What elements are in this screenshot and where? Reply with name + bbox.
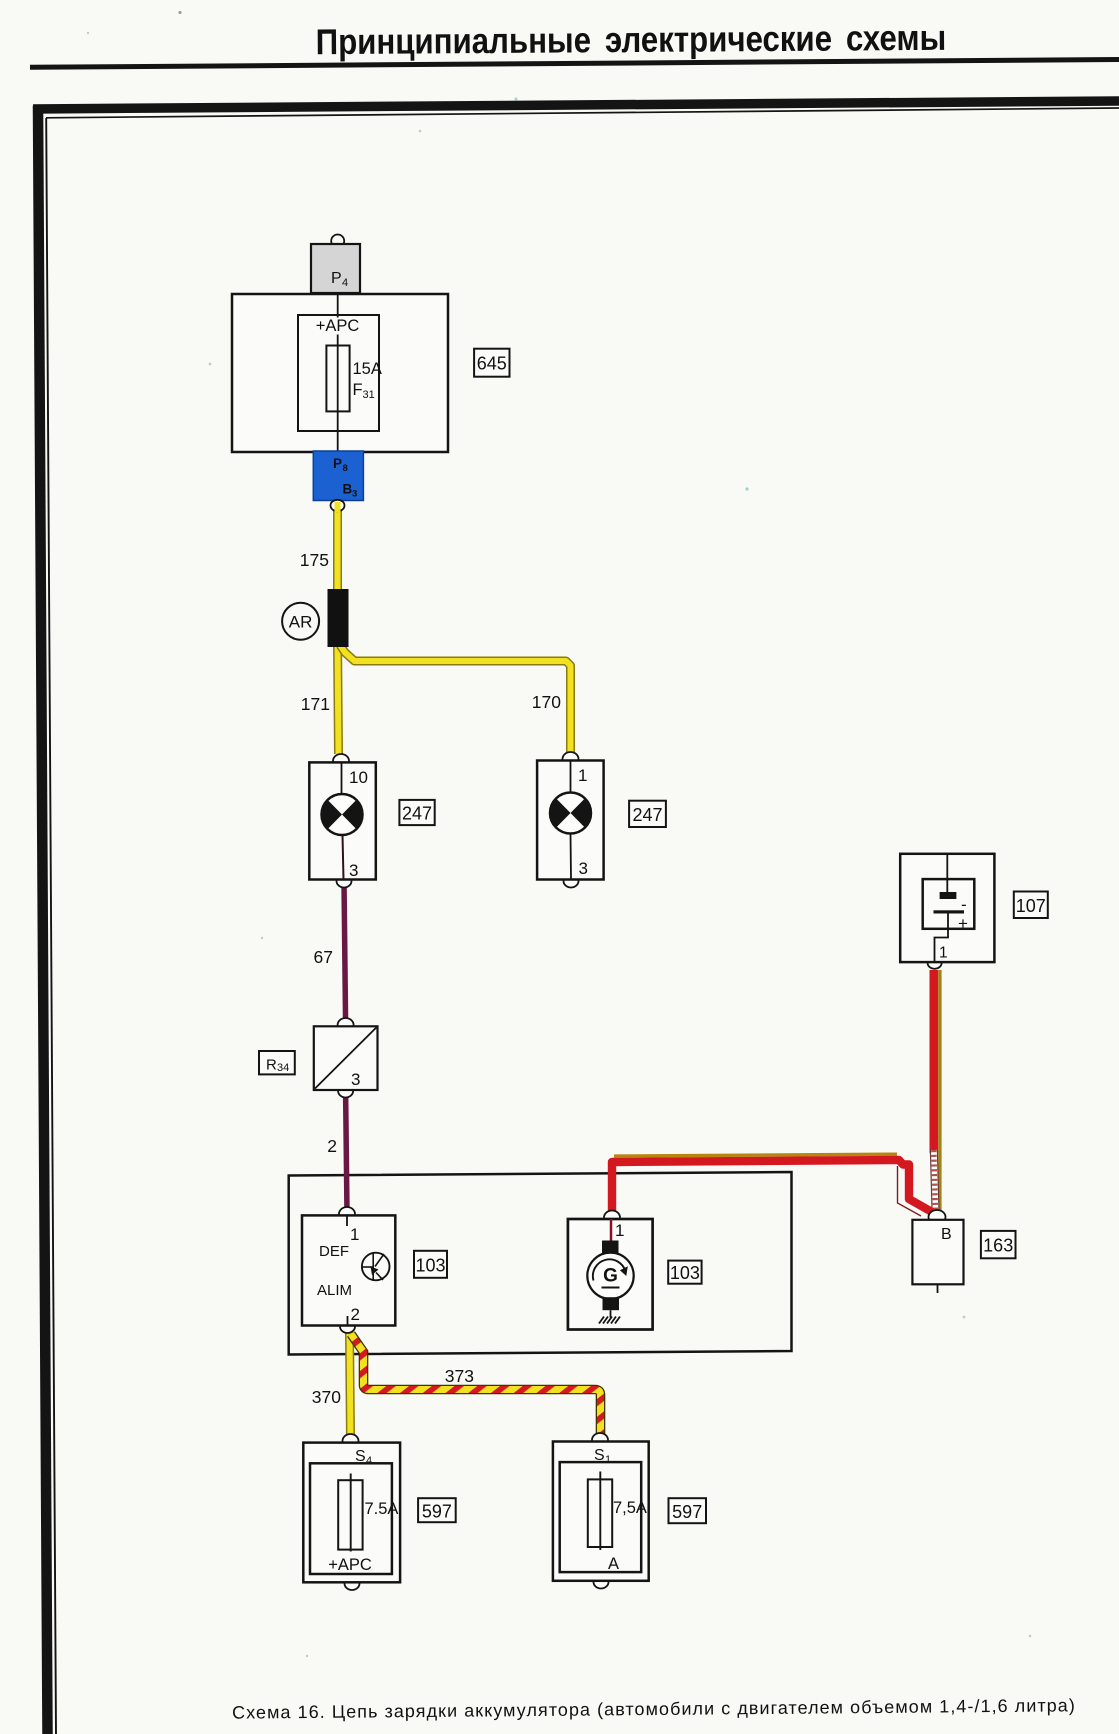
node bottom connector: [594, 1576, 609, 1589]
gauge symbol: [362, 1253, 390, 1281]
svg-text:P: P: [331, 270, 342, 287]
svg-text:A: A: [608, 1555, 619, 1573]
wire to battery symbol: [946, 854, 948, 892]
svg-text:1: 1: [605, 1454, 611, 1466]
box 645 inner: [298, 315, 379, 431]
module box: [302, 1215, 395, 1325]
svg-text:2: 2: [351, 1305, 360, 1324]
label box 163: [981, 1231, 1016, 1258]
svg-text:+APC: +APC: [316, 317, 360, 335]
node B box: [912, 1220, 963, 1285]
svg-text:3: 3: [352, 489, 357, 500]
svg-text:31: 31: [363, 389, 375, 401]
fuse F31 body: [326, 346, 349, 412]
frame top border: [33, 101, 1119, 109]
fuse holder inner box: [310, 1463, 392, 1574]
connector P4 (grey): [311, 244, 360, 293]
svg-text:1: 1: [615, 1221, 624, 1240]
label box R34: [259, 1051, 295, 1074]
wire generator to node B (red): [612, 1154, 932, 1221]
svg-text:7.5A: 7.5A: [365, 1500, 399, 1518]
wire 175 (yellow, fuse F31 to splice AR): [333, 507, 342, 600]
wire pin 1 stub: [346, 1215, 348, 1226]
lamp H2 box: [537, 761, 604, 880]
battery negative plate: [940, 892, 957, 899]
node top connector: [338, 1018, 354, 1032]
wire pin 10 stub: [341, 762, 343, 794]
svg-text:AR: AR: [289, 613, 313, 632]
wire positive plate to pin 1: [935, 914, 949, 963]
box 645 outer: [232, 294, 448, 452]
label box 597 (left): [418, 1498, 456, 1522]
svg-text:B: B: [941, 1226, 952, 1243]
node pin 2 connector: [340, 1320, 355, 1333]
svg-text:34: 34: [277, 1062, 289, 1074]
wire to ground: [610, 1310, 612, 1317]
fuse holder outer box: [553, 1442, 649, 1581]
generator G (alternator): [568, 1211, 653, 1330]
title underline: [30, 60, 1119, 68]
node pin 3 connector: [338, 1085, 353, 1098]
svg-text:15A: 15A: [353, 360, 382, 378]
wire pin 1 stub: [570, 761, 572, 793]
svg-text:B: B: [343, 482, 353, 497]
svg-text:1: 1: [939, 945, 948, 962]
connector R34 box: [314, 1026, 378, 1090]
rotation arrow arc: [593, 1259, 626, 1280]
ground: [599, 1317, 620, 1324]
fuse centre line: [599, 1472, 601, 1551]
svg-text:G: G: [603, 1266, 618, 1287]
connector circle below blue box: [331, 500, 345, 511]
svg-text:2: 2: [327, 1136, 337, 1156]
lamp H1 box: [309, 762, 376, 879]
fuse S1 body: [588, 1479, 612, 1547]
circle AR label: [282, 603, 319, 640]
fuse holder outer box: [303, 1443, 400, 1583]
svg-text:247: 247: [632, 805, 662, 825]
wire over connector bump: [335, 502, 341, 512]
label box 103 (left): [414, 1251, 447, 1278]
node pin 1 connector: [563, 752, 579, 766]
svg-text:F: F: [353, 381, 363, 399]
svg-text:+APC: +APC: [328, 1556, 372, 1574]
wire 67 (maroon, lamp pin 3 to R34): [344, 882, 346, 1024]
svg-text:645: 645: [477, 354, 507, 374]
svg-text:10: 10: [349, 768, 368, 787]
node bottom connector: [345, 1577, 360, 1590]
splice black sleeve on wire 175/171: [328, 589, 349, 647]
lamp symbol: [322, 794, 363, 835]
svg-text:373: 373: [445, 1366, 474, 1386]
node top connector: [592, 1433, 608, 1447]
label box 645: [474, 349, 509, 377]
node pin 1 connector: [339, 1207, 355, 1221]
node pin 3 connector: [564, 875, 579, 888]
svg-text:1: 1: [578, 766, 587, 785]
battery outer box: [900, 854, 994, 962]
label box 247 (right): [629, 801, 666, 827]
fuse centre line (upper): [337, 294, 339, 318]
frame inner top line: [46, 108, 1119, 118]
label box 597 (right): [669, 1498, 707, 1523]
svg-text:597: 597: [672, 1502, 702, 1522]
frame inner left line: [46, 118, 56, 1734]
svg-text:DEF: DEF: [319, 1243, 349, 1260]
fuse holder inner box: [560, 1462, 642, 1572]
svg-text:67: 67: [314, 947, 333, 967]
svg-text:103: 103: [670, 1263, 700, 1283]
module box: [568, 1219, 653, 1330]
wire pin 1 stub (red): [610, 1219, 613, 1241]
svg-text:4: 4: [366, 1455, 372, 1467]
svg-text:247: 247: [402, 804, 432, 824]
node pin 1 connector: [604, 1211, 620, 1225]
fuse centre line: [350, 1474, 352, 1552]
fuse centre line (lower): [337, 335, 339, 453]
battery inner box: [923, 879, 975, 929]
wire 370 (yellow, ALIM pin 2 to fuse S4): [350, 1332, 351, 1439]
connector diagonal: [315, 1028, 376, 1089]
svg-text:P: P: [333, 456, 342, 471]
node B connector: [929, 1210, 946, 1224]
node pin 1 connector: [928, 957, 942, 969]
wire 373 (yellow/red striped, ALIM pin 2 to fuse S1): [351, 1334, 601, 1438]
svg-text:Принципиальные электрические с: Принципиальные электрические схемы: [316, 18, 947, 63]
lamp symbol: [550, 793, 591, 834]
label box 103 (right): [668, 1261, 701, 1284]
svg-text:ALIM: ALIM: [317, 1282, 352, 1299]
svg-text:4: 4: [342, 277, 348, 289]
svg-text:163: 163: [983, 1236, 1013, 1256]
wire pin 3 stub: [570, 834, 573, 880]
svg-text:3: 3: [579, 859, 588, 878]
svg-text:3: 3: [349, 861, 358, 880]
wire 170 (yellow, splice branch to lamp pin 1): [340, 645, 571, 752]
wire 2 (maroon, R34 pin 3 to DEF pin 1): [346, 1092, 347, 1213]
svg-text:+: +: [958, 914, 968, 933]
wire pin 3 stub: [343, 835, 344, 880]
connector circle above P4: [331, 235, 344, 248]
brush block top: [602, 1241, 619, 1254]
wire 171 (yellow, splice to lamp pin 10): [338, 640, 339, 754]
svg-text:597: 597: [422, 1502, 452, 1522]
svg-text:7,5A: 7,5A: [613, 1499, 647, 1517]
node pin 3 connector: [337, 875, 352, 888]
label box 247 (left): [399, 800, 434, 825]
svg-text:171: 171: [301, 694, 330, 714]
svg-text:3: 3: [351, 1070, 360, 1089]
svg-text:107: 107: [1016, 896, 1046, 916]
brush block bottom: [603, 1297, 620, 1310]
svg-text:1: 1: [350, 1225, 359, 1244]
node pin 10 connector: [333, 754, 349, 768]
node top connector: [343, 1434, 359, 1448]
wire battery to node B (red with olive companion): [930, 970, 940, 1212]
gauge module DEF/ALIM (charge warning): [302, 1207, 395, 1333]
main unit box (instrument cluster 103): [289, 1172, 792, 1355]
fuse S4 body: [338, 1480, 362, 1549]
connector P8/B3 (blue): [313, 451, 363, 501]
svg-text:103: 103: [415, 1256, 445, 1276]
generator circle: [587, 1253, 633, 1299]
svg-text:175: 175: [300, 550, 329, 570]
svg-text:370: 370: [312, 1387, 341, 1407]
wire stub below B: [937, 1284, 939, 1293]
svg-text:170: 170: [532, 692, 561, 712]
battery positive plate: [934, 910, 965, 913]
wire pin 2 stub: [347, 1316, 349, 1326]
svg-text:8: 8: [343, 463, 348, 474]
svg-text:R: R: [266, 1057, 277, 1074]
frame left border: [38, 106, 48, 1734]
label box 107: [1014, 892, 1048, 919]
